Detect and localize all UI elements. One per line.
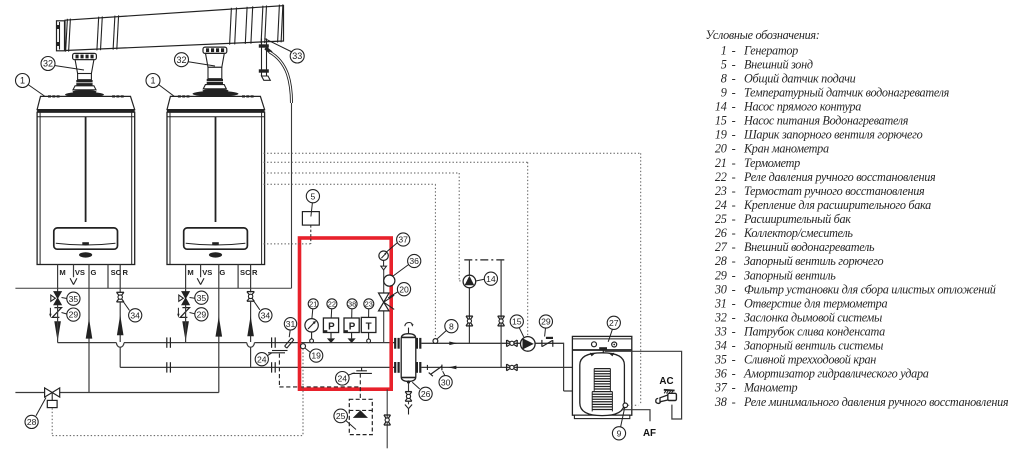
svg-text:Температурный датчик водонагре: Температурный датчик водонагревателя: [744, 86, 950, 100]
flow arrow down (M): [182, 321, 189, 341]
svg-text:-: -: [732, 198, 736, 212]
svg-text:R: R: [123, 268, 129, 277]
svg-text:Заслонка дымовой системы: Заслонка дымовой системы: [744, 310, 882, 324]
dashed bracket-to-tank link: [278, 354, 280, 387]
label 29: [539, 315, 552, 328]
gauge pipe: [383, 270, 385, 293]
return pipe R boiler1 with crossing arc: [119, 302, 121, 342]
return flow arrow: [449, 366, 457, 370]
svg-text:36: 36: [409, 256, 419, 266]
small down arrow: [177, 308, 179, 314]
svg-text:5: 5: [311, 191, 316, 201]
drain funnel Y: [405, 405, 409, 409]
small down arrow: [49, 308, 51, 314]
svg-text:34: 34: [714, 339, 727, 353]
svg-text:19: 19: [715, 128, 727, 142]
leader 26: [412, 382, 419, 389]
label 30: [439, 376, 452, 389]
flue left end cap: [56, 21, 65, 51]
svg-text:1: 1: [721, 43, 727, 57]
dashed link to expansion tank: [359, 373, 361, 399]
svg-text:Коллектор/смеситель: Коллектор/смеситель: [743, 226, 853, 240]
thermostat 23: [361, 317, 376, 342]
label 21: [308, 299, 318, 309]
svg-text:-: -: [732, 296, 736, 310]
svg-text:-: -: [732, 86, 736, 100]
svg-text:24: 24: [338, 373, 348, 383]
svg-text:8: 8: [449, 321, 454, 331]
svg-text:T: T: [366, 321, 372, 332]
hydraulic separator 26: [401, 334, 416, 382]
label 29: [195, 308, 208, 321]
leader 1a: [28, 85, 53, 103]
svg-text:-: -: [732, 57, 736, 71]
svg-text:-: -: [732, 395, 736, 409]
label 22: [327, 299, 337, 309]
label 9: [612, 427, 625, 440]
expansion tank bracket 24a: [272, 350, 288, 352]
gas ball valve 19: [301, 344, 306, 349]
dotted wire to supply sensor 8: [264, 183, 436, 185]
water heater 27 body: [572, 336, 631, 418]
svg-text:24: 24: [715, 198, 727, 212]
label 1 boiler1: [16, 74, 30, 88]
leader 21: [311, 309, 314, 319]
svg-text:1: 1: [150, 76, 155, 86]
svg-text:36: 36: [714, 367, 728, 381]
svg-text:Генератор: Генератор: [743, 43, 798, 57]
svg-text:-: -: [732, 114, 736, 128]
drain channel line: [15, 287, 291, 289]
union couplings: [166, 337, 168, 347]
dotted wire to outdoor sensor 5: [264, 243, 311, 245]
svg-text:22: 22: [328, 299, 336, 308]
svg-text:SC: SC: [240, 268, 251, 277]
svg-text:P: P: [328, 321, 335, 332]
check valve 29: [542, 338, 553, 347]
svg-text:Внешний водонагреватель: Внешний водонагреватель: [744, 240, 875, 254]
shut-off valve 29: [52, 308, 61, 318]
return stub tick: [426, 365, 428, 370]
leader 5: [311, 203, 313, 217]
leader 27: [608, 329, 612, 342]
svg-text:32: 32: [714, 310, 727, 324]
leader 32a: [55, 66, 85, 71]
svg-text:G: G: [91, 268, 97, 277]
leader 24a: [268, 353, 272, 356]
tank sensor 9: [623, 403, 628, 408]
svg-text:1: 1: [20, 76, 25, 86]
leader 8: [437, 331, 446, 339]
flue duct 32/33 main pipe: [65, 4, 284, 51]
svg-text:-: -: [732, 310, 736, 324]
dotted wire to tank sensor 9: [264, 152, 641, 154]
svg-text:SC: SC: [111, 268, 122, 277]
DHW pump 15: [521, 337, 536, 352]
svg-text:Реле минимального давления ру: Реле минимального давления ручного восст…: [743, 395, 1009, 409]
svg-text:29: 29: [197, 309, 207, 319]
svg-text:15: 15: [512, 317, 522, 327]
condensate trap 33: [259, 39, 273, 81]
svg-text:-: -: [732, 381, 736, 395]
svg-text:20: 20: [399, 284, 409, 294]
return pipe R boiler2 with crossing arc: [250, 301, 252, 342]
condensate hose: [270, 52, 292, 103]
svg-text:-: -: [732, 339, 736, 353]
svg-text:Внешний зонд: Внешний зонд: [744, 57, 813, 71]
leader 36: [393, 265, 409, 277]
svg-text:29: 29: [69, 310, 79, 320]
svg-text:33: 33: [714, 325, 727, 339]
heater top circles: [592, 342, 597, 347]
secondary supply pipe: [421, 342, 563, 344]
svg-text:-: -: [732, 240, 736, 254]
inner tank: [580, 353, 625, 416]
svg-text:-: -: [732, 254, 736, 268]
svg-text:8: 8: [721, 71, 727, 85]
svg-text:20: 20: [715, 142, 727, 156]
svg-text:32: 32: [43, 59, 53, 69]
svg-text:-: -: [732, 128, 736, 142]
leader 35b: [190, 297, 195, 300]
svg-text:14: 14: [486, 274, 496, 284]
svg-text:-: -: [732, 71, 736, 85]
svg-text:Запорный вентиль горючего: Запорный вентиль горючего: [744, 254, 884, 268]
svg-text:-: -: [732, 226, 736, 240]
svg-text:-: -: [732, 367, 736, 381]
discharge funnel VS: [70, 278, 73, 284]
svg-text:Запорный вентиль: Запорный вентиль: [744, 268, 836, 282]
svg-text:Насос питания Водонагревателя: Насос питания Водонагревателя: [743, 114, 909, 128]
leader 35a: [62, 298, 67, 299]
label 20: [397, 283, 410, 296]
svg-text:34: 34: [261, 310, 271, 320]
svg-text:Фильтр установки для сбора или: Фильтр установки для сбора илистых отлож…: [744, 282, 996, 296]
svg-text:-: -: [732, 43, 736, 57]
leader 37: [386, 243, 397, 253]
heat exchanger coil lower: [592, 392, 612, 412]
svg-text:35: 35: [714, 353, 727, 367]
gas flow arrow G1: [86, 318, 93, 338]
label 8: [445, 320, 458, 333]
label 28: [25, 415, 38, 428]
svg-text:VS: VS: [75, 268, 85, 277]
svg-text:G: G: [219, 268, 225, 277]
svg-text:9: 9: [617, 428, 622, 438]
svg-text:35: 35: [197, 293, 207, 303]
label 32 boiler1: [41, 57, 55, 71]
svg-text:30: 30: [714, 282, 727, 296]
heat exchanger coil upper: [594, 369, 610, 391]
svg-text:15: 15: [715, 114, 727, 128]
supply drop to coil: [563, 343, 565, 391]
svg-text:-: -: [732, 142, 736, 156]
leader 28: [36, 398, 46, 416]
svg-text:Насос прямого контура: Насос прямого контура: [743, 100, 861, 114]
discharge funnel VS: [197, 278, 200, 284]
svg-text:23: 23: [365, 299, 373, 308]
dotted wire to pump 14: [264, 172, 460, 174]
svg-text:-: -: [732, 282, 736, 296]
label 25: [334, 409, 348, 423]
leader 32b: [188, 62, 215, 66]
boiler connection stubs M VS G SC R: [57, 265, 59, 292]
label 31: [284, 318, 296, 330]
label 38: [347, 299, 357, 309]
svg-text:27: 27: [715, 240, 728, 254]
secondary return pipe: [421, 366, 600, 368]
svg-text:26: 26: [715, 226, 728, 240]
system shut-off valve 34: [117, 291, 124, 293]
svg-text:21: 21: [309, 299, 317, 308]
manifold drain with valve: [386, 389, 388, 448]
three-way drain valve 35: [54, 292, 61, 299]
supply manifold: [58, 342, 117, 344]
label 15: [510, 315, 523, 328]
circuit pump 14: [463, 275, 476, 288]
dash-dot circuit header: [464, 259, 506, 261]
gas line: [15, 392, 44, 394]
leader 30: [443, 371, 445, 375]
riser A valve: [466, 316, 473, 326]
pressure switch 22: [323, 318, 338, 343]
gas flow arrow G2: [216, 316, 223, 336]
flue damper adapter 32 (boiler 1): [65, 53, 104, 97]
boiler generator 1 (right): [167, 95, 265, 264]
svg-text:35: 35: [69, 294, 79, 304]
label 34: [129, 309, 142, 322]
shut-off valve 29: [180, 308, 189, 318]
heater sensor pocket: [599, 347, 607, 350]
circuit riser B: [500, 260, 502, 368]
svg-text:37: 37: [714, 381, 728, 395]
expansion tank 25: [349, 399, 372, 434]
svg-text:Термостат ручного восстановлен: Термостат ручного восстановления: [744, 184, 925, 198]
svg-text:Термометр: Термометр: [744, 156, 800, 170]
supply sensor 8: [433, 339, 438, 344]
legend items: [721, 43, 798, 57]
leader 34b: [254, 301, 260, 310]
leader 22: [330, 309, 333, 318]
thermometer pocket 31: [285, 338, 294, 348]
svg-text:31: 31: [286, 319, 296, 329]
svg-text:38: 38: [348, 299, 356, 308]
label 37: [397, 233, 410, 246]
svg-text:29: 29: [541, 317, 551, 327]
supply flow arrow: [449, 342, 457, 346]
outdoor sensor 5: [302, 212, 319, 226]
svg-text:Запорный вентиль системы: Запорный вентиль системы: [744, 339, 883, 353]
svg-text:38: 38: [714, 395, 727, 409]
label 27: [607, 316, 620, 329]
label 32 boiler2: [175, 53, 189, 67]
label 29: [67, 308, 80, 321]
circuit riser A: [468, 260, 470, 343]
flue damper adapter 32 (boiler 2): [193, 47, 239, 97]
flow arrow down (M): [54, 321, 61, 341]
thermometer 21: [305, 319, 318, 343]
svg-text:-: -: [732, 212, 736, 226]
gas shut-off valve 28: [45, 388, 60, 408]
separator air vent: [405, 322, 414, 333]
svg-text:22: 22: [715, 170, 727, 184]
label 34: [259, 309, 272, 322]
svg-text:14: 14: [715, 100, 727, 114]
svg-text:19: 19: [311, 351, 321, 361]
riser B valve: [498, 316, 505, 326]
label 5: [306, 190, 319, 203]
leader 29b: [190, 313, 195, 314]
dotted wire 19 to gas valve 28: [302, 349, 304, 436]
dashed sensor link: [310, 225, 312, 244]
label 35: [67, 292, 80, 305]
svg-text:-: -: [732, 325, 736, 339]
svg-text:Отверстие для термометра: Отверстие для термометра: [744, 296, 887, 310]
boiler connection stubs M VS G SC R: [185, 265, 187, 292]
leader 20: [388, 292, 398, 298]
svg-text:24: 24: [257, 354, 267, 364]
leader 29a: [62, 313, 67, 315]
leader 9: [621, 408, 625, 427]
leader 24b: [349, 373, 355, 375]
leader 25: [346, 421, 356, 430]
label 35: [195, 291, 208, 304]
leader 14: [476, 279, 484, 281]
boiler generator 1 (left): [37, 95, 135, 264]
svg-text:Шарик запорного вентиля горюче: Шарик запорного вентиля горючего: [743, 128, 923, 142]
separator drain: [407, 380, 410, 383]
leader 29c: [544, 328, 547, 337]
red kit boundary box: [300, 238, 392, 389]
svg-text:M: M: [187, 268, 193, 277]
svg-text:28: 28: [27, 417, 37, 427]
svg-text:Расширительный бак: Расширительный бак: [743, 212, 851, 226]
svg-text:33: 33: [292, 51, 302, 61]
condensate drain wire down: [291, 103, 293, 288]
svg-text:-: -: [732, 268, 736, 282]
min pressure switch 38: [344, 318, 359, 343]
leader 38: [351, 309, 353, 318]
svg-text:Крепление для расширительного: Крепление для расширительного бака: [743, 198, 931, 212]
label 26: [419, 387, 432, 400]
leader 33: [264, 38, 292, 52]
strainer 30: [429, 365, 442, 377]
leader 34a: [123, 302, 129, 311]
svg-text:VS: VS: [202, 268, 212, 277]
water hammer damper 36: [384, 275, 395, 286]
svg-text:34: 34: [130, 310, 140, 320]
svg-text:21: 21: [715, 156, 727, 170]
return line valve: [507, 364, 518, 371]
svg-text:23: 23: [715, 184, 727, 198]
svg-text:26: 26: [421, 389, 431, 399]
label 24: [255, 353, 268, 366]
svg-text:-: -: [732, 156, 736, 170]
label 14: [484, 272, 497, 285]
label 33: [290, 49, 304, 63]
svg-text:25: 25: [336, 411, 346, 421]
svg-text:27: 27: [609, 318, 619, 328]
svg-text:AF: AF: [643, 428, 656, 439]
svg-text:R: R: [252, 268, 258, 277]
svg-text:-: -: [732, 184, 736, 198]
system shut-off valve 34: [247, 291, 254, 293]
leader 15: [519, 328, 523, 337]
label 23: [364, 299, 374, 309]
leader 23: [368, 309, 370, 317]
svg-text:31: 31: [714, 296, 727, 310]
dotted wire to pump 15: [264, 161, 528, 163]
svg-text:Патрубок слива конденсата: Патрубок слива конденсата: [743, 325, 885, 339]
svg-text:37: 37: [398, 235, 408, 245]
svg-text:P: P: [349, 321, 356, 332]
leader 1b: [159, 85, 183, 103]
tank top arrows: [590, 353, 595, 357]
label 36: [408, 254, 421, 267]
svg-text:32: 32: [176, 55, 186, 65]
svg-text:Реле давления ручного восстано: Реле давления ручного восстановления: [743, 170, 936, 184]
three-way drain valve 35: [182, 292, 189, 299]
label 24: [336, 372, 350, 386]
cold water inlet AF: [622, 410, 650, 422]
svg-text:AC: AC: [659, 376, 673, 387]
supply line valve: [507, 340, 518, 347]
svg-text:Кран манометра: Кран манометра: [743, 142, 829, 156]
svg-text:Условные обозначения:: Условные обозначения:: [706, 28, 820, 42]
svg-text:Амортизатор гидравлического уд: Амортизатор гидравлического удара: [743, 367, 929, 381]
svg-text:5: 5: [721, 57, 727, 71]
svg-text:Общий датчик подачи: Общий датчик подачи: [744, 71, 856, 85]
svg-text:29: 29: [715, 268, 727, 282]
svg-text:25: 25: [715, 212, 727, 226]
hot water line AC: [605, 351, 682, 419]
gauge cock 20: [379, 293, 395, 311]
leader 19: [305, 348, 310, 352]
svg-text:M: M: [59, 268, 65, 277]
label 19: [310, 349, 323, 362]
return manifold: [120, 366, 395, 368]
svg-text:-: -: [732, 100, 736, 114]
manometer 37: [379, 251, 388, 270]
separator flanges: [394, 338, 396, 349]
leader 31: [289, 330, 290, 337]
svg-text:-: -: [732, 170, 736, 184]
tap faucet AC: [656, 390, 677, 404]
svg-text:30: 30: [441, 377, 451, 387]
svg-text:-: -: [732, 353, 736, 367]
svg-text:Сливной трехходовой кран: Сливной трехходовой кран: [744, 353, 876, 367]
expansion tank bracket 24b: [361, 367, 363, 370]
svg-text:9: 9: [721, 86, 727, 100]
svg-text:Манометр: Манометр: [743, 381, 797, 395]
label 1 boiler2: [146, 74, 160, 88]
svg-text:28: 28: [715, 254, 727, 268]
